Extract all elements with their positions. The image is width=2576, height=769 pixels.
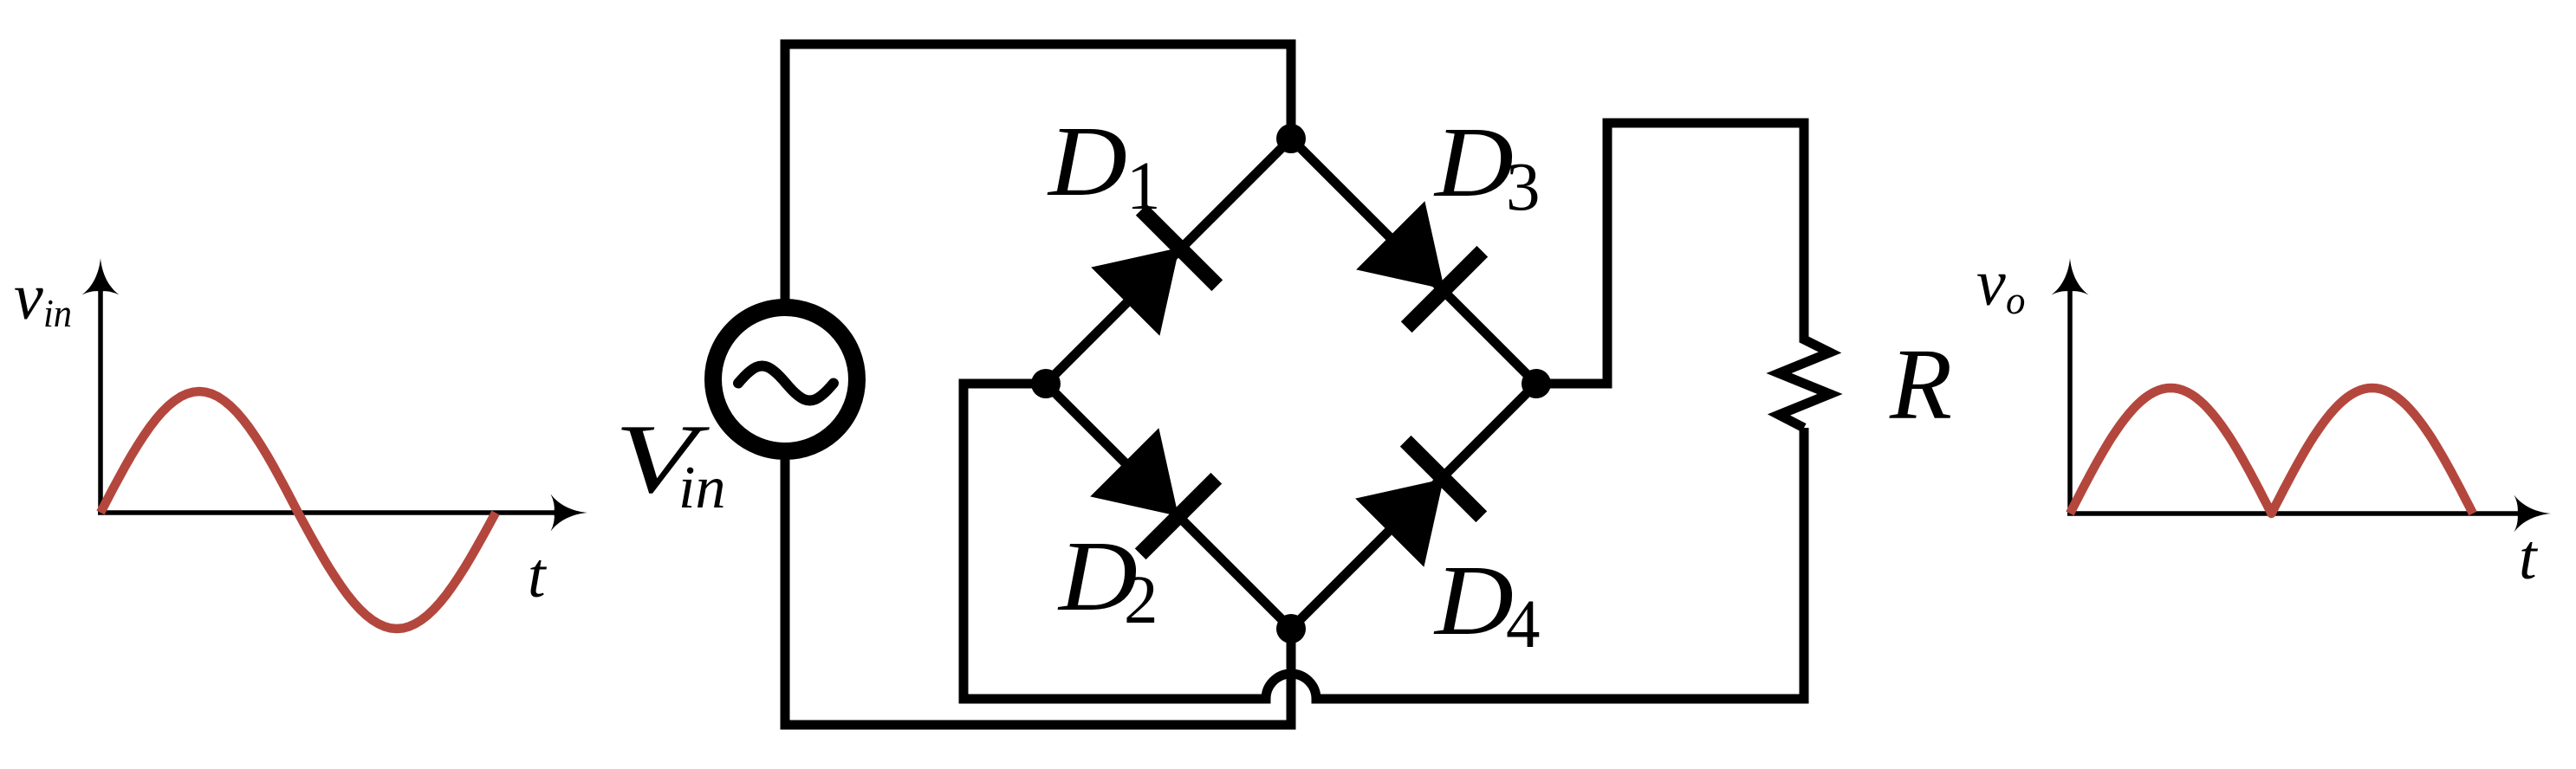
node: bridge left junction xyxy=(1031,369,1061,398)
wire: right node to load top and resistor R zigzag xyxy=(1536,123,1830,428)
bridge branch wire: top node to right node xyxy=(1291,139,1536,384)
wire: source top to bridge top xyxy=(785,44,1291,303)
svg-text:t: t xyxy=(528,540,548,611)
diode D3 xyxy=(1356,201,1483,327)
AC source V_in circle xyxy=(713,307,857,451)
diode D2 xyxy=(1090,428,1217,554)
node: bridge top junction xyxy=(1276,124,1306,153)
AC source sine symbol xyxy=(738,366,834,401)
wire: left node to load bottom with crossover hop xyxy=(964,384,1804,699)
svg-text:o: o xyxy=(2006,279,2026,322)
output plot y-axis xyxy=(2052,258,2089,514)
svg-text:in: in xyxy=(43,291,72,335)
diode D1 xyxy=(1091,210,1217,336)
svg-text:in: in xyxy=(678,455,725,521)
node: bridge bottom junction xyxy=(1276,614,1306,643)
output plot x-axis xyxy=(2067,495,2551,533)
svg-text:1: 1 xyxy=(1126,149,1161,224)
bridge branch wire: bottom node to right node xyxy=(1291,384,1536,629)
wire: source bottom to bridge bottom xyxy=(785,456,1291,725)
output rectified waveform xyxy=(2070,388,2473,514)
input sine waveform xyxy=(101,391,496,629)
svg-text:t: t xyxy=(2519,522,2539,593)
diode D4 xyxy=(1355,441,1482,567)
svg-text:2: 2 xyxy=(1124,563,1158,638)
svg-text:D: D xyxy=(1433,546,1514,656)
svg-text:R: R xyxy=(1889,327,1952,441)
input plot x-axis xyxy=(98,494,587,532)
svg-text:3: 3 xyxy=(1506,150,1541,225)
input plot y-axis xyxy=(82,258,120,513)
svg-text:D: D xyxy=(1433,107,1514,218)
svg-text:D: D xyxy=(1047,107,1127,217)
bridge branch wire: left node to top node xyxy=(1046,139,1291,384)
svg-text:v: v xyxy=(1976,247,2006,320)
node: bridge right junction xyxy=(1522,369,1551,398)
svg-text:4: 4 xyxy=(1506,587,1541,662)
svg-text:v: v xyxy=(14,261,43,333)
bridge branch wire: left node to bottom node xyxy=(1046,384,1291,629)
